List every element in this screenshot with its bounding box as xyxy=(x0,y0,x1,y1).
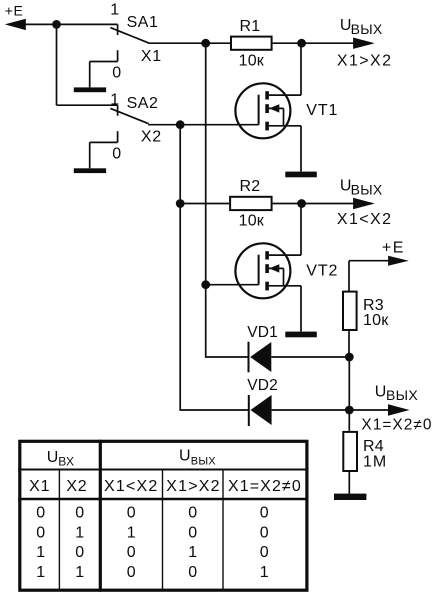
svg-text:X1=X2≠0: X1=X2≠0 xyxy=(361,417,432,434)
svg-text:+E: +E xyxy=(382,239,405,256)
svg-text:1: 1 xyxy=(75,564,84,581)
svg-text:0: 0 xyxy=(112,65,121,82)
svg-text:ВХ: ВХ xyxy=(58,455,74,469)
svg-text:0: 0 xyxy=(188,505,197,522)
svg-text:1: 1 xyxy=(260,564,269,581)
svg-text:1: 1 xyxy=(110,92,119,109)
svg-text:VT1: VT1 xyxy=(306,102,338,119)
svg-text:0: 0 xyxy=(260,544,269,561)
svg-text:0: 0 xyxy=(188,564,197,581)
svg-text:SA1: SA1 xyxy=(127,14,159,31)
svg-text:0: 0 xyxy=(75,505,84,522)
svg-text:ВЫХ: ВЫХ xyxy=(191,455,216,467)
svg-text:R2: R2 xyxy=(240,178,261,195)
svg-text:X2: X2 xyxy=(141,129,162,146)
svg-text:ВЫХ: ВЫХ xyxy=(351,21,383,37)
svg-text:X1>X2: X1>X2 xyxy=(166,478,220,495)
svg-text:X1=X2≠0: X1=X2≠0 xyxy=(228,478,302,495)
svg-text:1: 1 xyxy=(36,544,45,561)
svg-text:0: 0 xyxy=(75,544,84,561)
svg-text:0: 0 xyxy=(188,524,197,541)
svg-text:0: 0 xyxy=(112,145,121,162)
svg-text:10к: 10к xyxy=(239,212,265,229)
svg-text:0: 0 xyxy=(260,505,269,522)
svg-text:VT2: VT2 xyxy=(306,262,338,279)
svg-text:X1>X2: X1>X2 xyxy=(337,52,392,69)
svg-text:1М: 1М xyxy=(363,454,387,471)
svg-text:U: U xyxy=(179,448,191,465)
svg-text:R1: R1 xyxy=(240,18,261,35)
svg-text:VD2: VD2 xyxy=(247,377,278,394)
svg-text:0: 0 xyxy=(127,564,136,581)
svg-text:+E: +E xyxy=(5,2,24,18)
svg-text:1: 1 xyxy=(36,564,45,581)
svg-text:0: 0 xyxy=(260,524,269,541)
svg-text:10к: 10к xyxy=(363,312,389,329)
svg-text:ВЫХ: ВЫХ xyxy=(386,387,418,403)
svg-text:0: 0 xyxy=(36,524,45,541)
svg-text:U: U xyxy=(47,449,59,466)
svg-text:10к: 10к xyxy=(239,52,265,69)
svg-text:X1<X2: X1<X2 xyxy=(104,478,158,495)
svg-text:1: 1 xyxy=(75,524,84,541)
svg-text:0: 0 xyxy=(127,544,136,561)
svg-text:X1: X1 xyxy=(141,48,162,65)
svg-text:X2: X2 xyxy=(66,478,87,495)
svg-text:1: 1 xyxy=(127,524,136,541)
svg-text:X1: X1 xyxy=(29,478,50,495)
svg-text:ВЫХ: ВЫХ xyxy=(351,181,383,197)
svg-text:U: U xyxy=(375,383,387,400)
svg-text:0: 0 xyxy=(36,505,45,522)
svg-text:1: 1 xyxy=(188,544,197,561)
svg-text:VD1: VD1 xyxy=(247,324,278,341)
svg-text:1: 1 xyxy=(110,2,119,19)
svg-text:0: 0 xyxy=(127,505,136,522)
svg-text:X1<X2: X1<X2 xyxy=(337,211,392,228)
svg-text:SA2: SA2 xyxy=(127,95,159,112)
